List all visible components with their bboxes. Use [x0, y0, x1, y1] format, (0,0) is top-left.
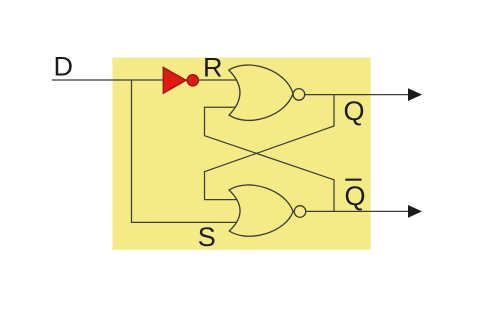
svg-text:S: S: [198, 222, 216, 252]
overline of Qbar: [345, 179, 361, 181]
arrowhead on Q output: [408, 88, 422, 101]
inverter U3 triangle (red): [163, 67, 186, 93]
wire: D input horizontal: [52, 79, 238, 81]
NOR gate U2 output bubble: [294, 206, 306, 218]
NOR gate U1 (upper, R input) body: [229, 65, 293, 120]
wire: feedback from upper gate output to lower gate upper input: [205, 95, 335, 200]
NOR gate U1 output bubble: [293, 89, 305, 101]
yellow background panel: [112, 58, 370, 250]
wire: S branch (vertical from D wire, then horizontal to lower gate): [132, 80, 239, 222]
svg-text:D: D: [54, 52, 74, 82]
svg-text:Q: Q: [344, 96, 365, 126]
svg-text:R: R: [203, 53, 223, 83]
wire: feedback from lower gate output to upper gate lower input: [205, 107, 335, 211]
wire: Q output to arrow: [303, 94, 421, 96]
inverter U3 bubble (red): [187, 75, 198, 86]
arrowhead on Qbar output: [408, 205, 422, 218]
NOR gate U2 (lower, S input) body: [229, 185, 293, 236]
svg-text:Q: Q: [345, 181, 366, 211]
wire: Qbar output to arrow: [304, 210, 421, 212]
